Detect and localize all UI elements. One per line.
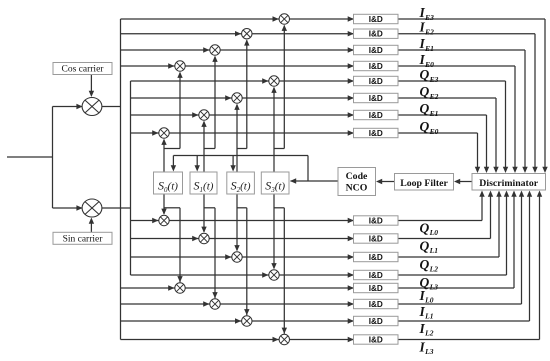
svg-text:I&D: I&D <box>369 300 383 309</box>
svg-text:Sin carrier: Sin carrier <box>63 234 104 244</box>
svg-text:QL0: QL0 <box>420 220 439 237</box>
svg-text:S0(t): S0(t) <box>158 179 178 195</box>
wire row IE3 to I&D <box>290 18 354 20</box>
svg-text:I&D: I&D <box>369 271 383 280</box>
wire row IE3 left <box>121 18 280 20</box>
wire into cos mixer <box>53 106 83 108</box>
I&D box row QL1 <box>354 234 399 243</box>
I&D box row QE3 <box>354 76 399 85</box>
svg-text:I&D: I&D <box>369 77 383 86</box>
svg-text:I&D: I&D <box>369 129 383 138</box>
wire discriminator to loop filter <box>459 181 473 183</box>
mixer IE3 <box>279 14 289 24</box>
wire arrow into S1 <box>196 156 198 168</box>
wire row QL0 left <box>131 220 159 222</box>
wire arrow into S0 <box>172 156 174 168</box>
svg-text:I&D: I&D <box>369 111 383 120</box>
I&D box row QL3 <box>354 270 399 279</box>
wire row IL2 to I&D <box>252 320 354 322</box>
wire row QE3 right <box>398 80 506 82</box>
svg-text:I&D: I&D <box>369 336 383 345</box>
wire carrier bus <box>52 107 54 209</box>
svg-text:I&D: I&D <box>369 94 383 103</box>
I&D box row QE1 <box>354 110 399 119</box>
S-code box S3(t) <box>261 172 289 194</box>
wire row QL0 right <box>398 220 482 222</box>
box Cos carrier <box>53 63 112 75</box>
wire row QE3 to I&D <box>279 80 353 82</box>
svg-text:I&D: I&D <box>369 30 383 39</box>
svg-text:IL3: IL3 <box>419 339 434 356</box>
svg-text:I&D: I&D <box>369 217 383 226</box>
svg-text:NCO: NCO <box>346 182 368 193</box>
svg-text:IL2: IL2 <box>419 321 434 338</box>
wire loop filter to code NCO <box>381 181 395 183</box>
wire row QE1 right <box>398 114 487 116</box>
wire row QL2 right <box>398 256 499 258</box>
box Loop Filter <box>395 174 454 191</box>
wire row IE2 left <box>121 33 242 35</box>
wire row QE2 right <box>398 97 496 99</box>
svg-text:Discriminator: Discriminator <box>479 178 538 189</box>
wire row IL1 to I&D <box>220 303 353 305</box>
wire row QE0 to I&D <box>169 132 353 134</box>
wire S2 top jog <box>237 148 247 150</box>
mixer QL0 <box>159 215 169 225</box>
box Sin carrier <box>53 232 112 244</box>
svg-text:IE2: IE2 <box>419 20 435 37</box>
svg-text:IE1: IE1 <box>419 36 434 53</box>
wire row IE1 to I&D <box>220 49 353 51</box>
svg-text:QL2: QL2 <box>420 257 439 274</box>
wire row IE1 right <box>398 49 525 51</box>
wire S1 up to Q mixer <box>203 122 205 172</box>
svg-text:Loop Filter: Loop Filter <box>400 178 448 189</box>
wire row QE1 to I&D <box>209 114 353 116</box>
wire row QL2 left <box>131 256 232 258</box>
wire row IE0 to I&D <box>185 65 353 67</box>
I&D box row IL0 <box>354 283 399 292</box>
wire row QE2 left <box>131 97 232 99</box>
svg-text:I&D: I&D <box>369 15 383 24</box>
wire S1 bottom jog <box>204 207 215 209</box>
svg-text:S2(t): S2(t) <box>231 179 251 195</box>
wire row QL2 to I&D <box>242 256 353 258</box>
I&D box row IL3 <box>354 335 399 344</box>
box Code NCO <box>338 168 376 196</box>
mixer QE0 <box>159 128 169 138</box>
svg-text:QE2: QE2 <box>420 84 439 101</box>
wire row QL1 right <box>398 238 491 240</box>
mixer sin (carrier Q) <box>82 199 102 217</box>
wire row IL1 right <box>398 303 522 305</box>
I&D box row QL0 <box>354 216 399 225</box>
svg-text:I&D: I&D <box>369 235 383 244</box>
svg-text:QE3: QE3 <box>420 67 439 84</box>
wire row IL1 left <box>121 303 210 305</box>
wire row IL3 right <box>398 339 540 341</box>
wire S2 bottom jog <box>237 207 247 209</box>
wire row QL1 left <box>131 238 199 240</box>
svg-text:IL1: IL1 <box>419 304 434 321</box>
I&D box row QL2 <box>354 252 399 261</box>
wire row QL3 to I&D <box>279 274 353 276</box>
svg-text:Cos carrier: Cos carrier <box>62 65 105 75</box>
mixer QE2 <box>232 93 242 103</box>
wire sin carrier to mixer <box>90 219 92 232</box>
wire row QE0 left <box>131 132 159 134</box>
wire row IL2 left <box>121 320 242 322</box>
wire row IE2 to I&D <box>252 33 354 35</box>
mixer QE3 <box>269 76 279 86</box>
I&D box row IE0 <box>354 61 399 70</box>
wire row IL3 left <box>121 339 280 341</box>
wire S1 top jog <box>204 148 215 150</box>
mixer QL1 <box>199 233 209 243</box>
wire input <box>7 156 53 158</box>
wire row QE3 left <box>131 80 269 82</box>
mixer IE0 <box>175 61 185 71</box>
I&D box row IE2 <box>354 29 399 38</box>
mixer QE1 <box>199 110 209 120</box>
svg-text:S1(t): S1(t) <box>194 179 214 195</box>
I&D box row IL1 <box>354 299 399 308</box>
wire NCO to S3 <box>308 180 338 182</box>
wire row IE0 right <box>398 65 515 67</box>
wire row QE1 left <box>131 114 199 116</box>
wire S3 down to Q mixer <box>273 194 275 268</box>
wire Q bus <box>130 81 132 275</box>
wire NCO distribution riser <box>307 156 309 182</box>
mixer cos (carrier I) <box>82 98 102 116</box>
wire S0 down to Q mixer <box>163 194 165 214</box>
wire arrow into S2 <box>232 156 234 168</box>
wire row IL3 to I&D <box>290 339 354 341</box>
svg-text:QE0: QE0 <box>420 119 439 136</box>
wire row QE0 right <box>398 132 478 134</box>
mixer QL2 <box>232 252 242 262</box>
svg-text:Code: Code <box>346 171 368 182</box>
svg-text:I&D: I&D <box>369 46 383 55</box>
I&D box row IE1 <box>354 45 399 54</box>
wire row QL3 left <box>131 274 269 276</box>
wire I bus <box>120 19 122 340</box>
wire S3 top jog <box>274 148 284 150</box>
mixer IE1 <box>210 45 220 55</box>
wire S0 up to Q mixer <box>163 140 165 172</box>
I&D box row QE0 <box>354 128 399 137</box>
S-code box S1(t) <box>190 172 217 194</box>
svg-text:QL1: QL1 <box>420 238 438 255</box>
wire S3 up to Q mixer <box>273 88 275 172</box>
svg-text:S3(t): S3(t) <box>265 179 285 195</box>
mixer IL1 <box>210 299 220 309</box>
svg-text:I&D: I&D <box>369 62 383 71</box>
box Discriminator <box>472 174 546 191</box>
mixer IL2 <box>242 316 252 326</box>
svg-text:I&D: I&D <box>369 317 383 326</box>
wire row IL2 right <box>398 320 530 322</box>
wire sin mixer out <box>102 207 131 209</box>
mixer QL3 <box>269 270 279 280</box>
wire S0 top jog <box>164 148 180 150</box>
S-code box S2(t) <box>227 172 255 194</box>
I&D box row IE3 <box>354 14 399 23</box>
wire cos mixer out <box>102 106 121 108</box>
I&D box row QE2 <box>354 93 399 102</box>
wire S0 bottom jog <box>164 207 180 209</box>
S-code box S0(t) <box>154 172 183 194</box>
wire row QL1 to I&D <box>209 238 353 240</box>
I&D box row IL2 <box>354 316 399 325</box>
wire S2 up to Q mixer <box>236 105 238 172</box>
svg-text:I&D: I&D <box>369 284 383 293</box>
wire row IL0 left <box>121 287 175 289</box>
wire row IE2 right <box>398 33 535 35</box>
svg-text:QE1: QE1 <box>420 101 439 118</box>
wire into sin mixer <box>53 207 83 209</box>
mixer IL3 <box>279 334 289 344</box>
wire row IE1 left <box>121 49 210 51</box>
wire row IL0 right <box>398 287 514 289</box>
wire S1 down to Q mixer <box>203 194 205 232</box>
wire row QL3 right <box>398 274 507 276</box>
wire NCO distribution line <box>173 155 308 157</box>
mixer IE2 <box>242 29 252 39</box>
wire S2 down to Q mixer <box>236 194 238 250</box>
wire row IE0 left <box>121 65 175 67</box>
wire row IE3 right <box>398 18 545 20</box>
wire cos carrier to mixer <box>90 75 92 96</box>
wire S3 bottom jog <box>274 207 284 209</box>
wire row QL0 to I&D <box>169 220 353 222</box>
wire row IL0 to I&D <box>185 287 353 289</box>
svg-text:I&D: I&D <box>369 253 383 262</box>
mixer IL0 <box>175 283 185 293</box>
wire row QE2 to I&D <box>242 97 353 99</box>
